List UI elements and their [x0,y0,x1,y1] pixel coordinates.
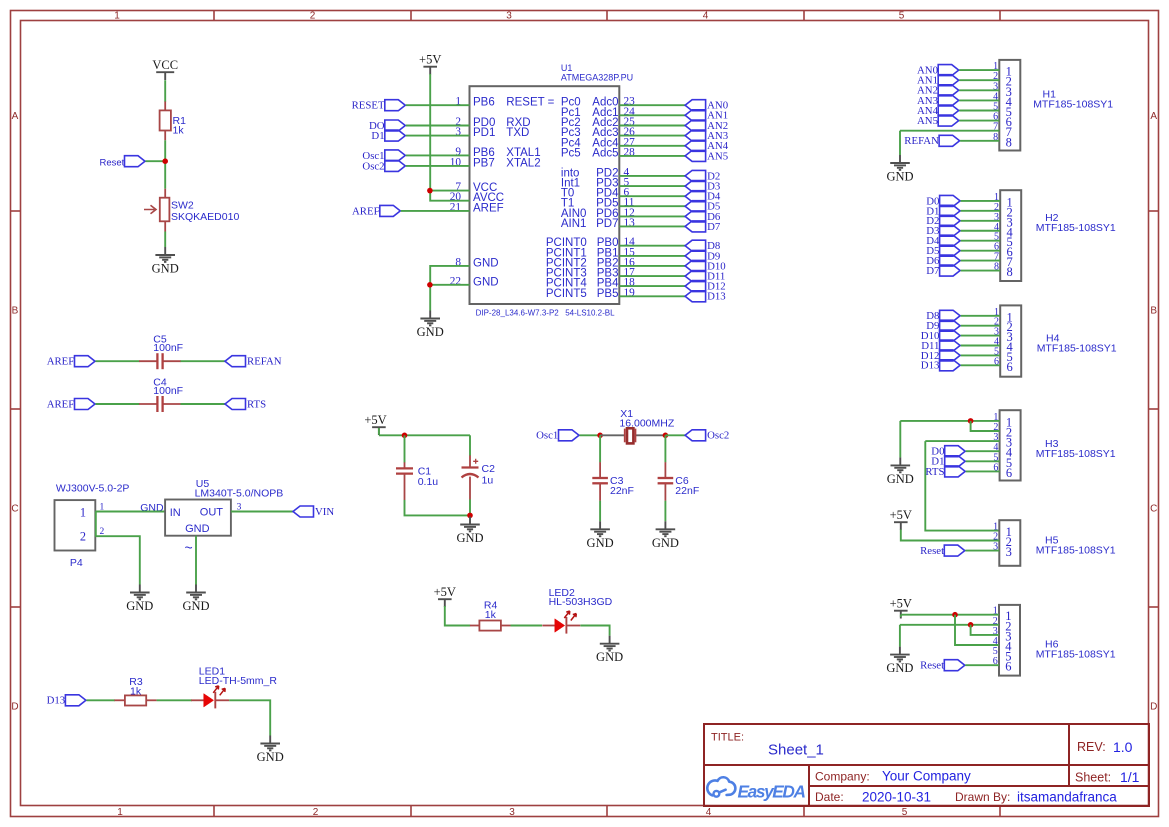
svg-text:Drawn By:: Drawn By: [955,790,1010,804]
net flag D6 (U1) [685,211,721,223]
svg-text:1/1: 1/1 [1120,769,1140,785]
U1 right pin labels Pc/Adc group [561,96,635,160]
svg-text:MTF185-108SY1: MTF185-108SY1 [1037,342,1117,354]
svg-text:D: D [1150,702,1157,713]
svg-text:Company:: Company: [815,770,870,784]
svg-text:AREF: AREF [47,398,75,410]
wire Osc2 to U1.10 [406,165,470,167]
svg-text:MTF185-108SY1: MTF185-108SY1 [1033,98,1113,110]
ground GND below C2 [456,517,483,546]
svg-text:D1: D1 [371,130,384,142]
svg-text:AREF: AREF [352,205,380,217]
wire D10 to H4.3 [961,335,1001,337]
wire D5 to H2.6 [961,250,1001,252]
wire LED1 to GND [229,700,270,735]
net flag RTS (C4) [225,398,266,410]
net flag D1 (U1 pin3) [371,130,405,142]
LED LED1 LED-TH-5mm_R [191,666,277,709]
svg-text:C: C [11,504,18,515]
svg-text:WJ300V-5.0-2P: WJ300V-5.0-2P [56,483,130,495]
power symbol +5V (H5) [890,508,912,530]
wire H3.1 to H3.2 [971,421,1000,431]
wire +5V to H5.2 [901,530,1000,541]
wire D8 to H4.1 [961,315,1001,317]
wire P4.2 to GND [95,536,140,584]
svg-text:IN: IN [170,507,181,519]
svg-text:VIN: VIN [315,506,334,518]
svg-text:PD1: PD1 [473,127,495,139]
svg-text:AREF: AREF [473,202,504,214]
svg-text:GND: GND [126,599,153,613]
svg-text:AIN1: AIN1 [561,218,587,230]
net flag D7 (H2) [926,265,960,277]
svg-text:D13: D13 [707,291,726,303]
wire AREF to C4 [96,403,140,405]
wire D1 to H2.2 [961,210,1001,212]
svg-text:4: 4 [706,807,712,818]
wire P4.1 to U5.IN [95,511,165,513]
svg-text:5: 5 [902,807,908,818]
net flag AN1 (U1) [685,110,728,122]
svg-text:GND: GND [456,531,483,545]
net flag D5 (H2) [926,245,960,257]
wire D12 to H4.5 [961,354,1001,356]
wire X1 to Osc2 [665,434,685,436]
connector H6 MTF185-108SY1 body [993,605,1116,676]
svg-text:MTF185-108SY1: MTF185-108SY1 [1036,448,1116,460]
net flag AN2 (H1) [917,85,959,97]
svg-text:D: D [11,702,18,713]
wire U1 to D8 [619,245,685,247]
net flag D7 (U1) [685,221,721,233]
svg-text:itsamandafranca: itsamandafranca [1017,790,1117,805]
connector H4 MTF185-108SY1 body [994,305,1117,376]
svg-text:AN5: AN5 [707,150,728,162]
wire H6.2 down to GND [899,625,901,647]
svg-text:RESET: RESET [352,100,385,112]
net flag Osc2 (crystal) [685,430,729,442]
junction H6 pin2/pin3 [968,622,974,628]
svg-text:GND: GND [182,599,209,613]
wire AN5 to H1.6 [959,120,999,122]
svg-text:OUT: OUT [200,507,224,519]
wire H3.3 down to H5.1 [925,441,999,530]
wire U1 to D4 [619,195,685,197]
svg-text:Reset: Reset [99,157,124,168]
ground GND below U1 [417,311,444,340]
svg-text:RESET =: RESET = [506,97,554,109]
svg-text:HL-503H3GD: HL-503H3GD [549,596,613,608]
svg-text:GND: GND [417,325,444,339]
junction C2 bottom GND node [467,513,473,519]
svg-text:5: 5 [899,11,905,22]
svg-text:LM340T-5.0/NOPB: LM340T-5.0/NOPB [195,487,284,499]
ground GND below H1 [886,155,913,184]
net flag D1 (H3) [931,456,965,468]
net flag RESET (U1 pin1) [352,100,406,112]
ground GND below H3 [887,457,914,486]
wire C6 to GND [664,501,666,522]
svg-text:3: 3 [506,11,512,22]
net flag D12 (U1) [685,281,726,293]
wire U1 to AN0 [619,104,685,106]
svg-text:PCINT5: PCINT5 [546,288,587,300]
net flag D8 (H4) [926,310,960,322]
net flag D11 (H4) [921,340,960,352]
connector H2 MTF185-108SY1 body [994,190,1116,281]
net flag REFAN (H1) [904,135,959,147]
net flag AN3 (U1) [685,130,728,142]
wire D2 to H2.3 [961,220,1001,222]
wire Reset to H5.3 [965,550,999,552]
net flag AN4 (H1) [917,105,959,117]
svg-text:3: 3 [1006,545,1012,559]
wire D0 to H3.4 [966,450,1000,452]
svg-text:TXD: TXD [506,127,529,139]
svg-text:GND: GND [887,472,914,486]
net flag Reset (H5) [920,545,965,557]
capacitor C2 1u (electrolytic) [462,435,496,499]
svg-text:2: 2 [80,530,86,544]
svg-text:D7: D7 [926,265,940,277]
svg-text:2020-10-31: 2020-10-31 [862,790,931,805]
svg-text:EasyEDA: EasyEDA [738,781,807,801]
wire Reset flag stub [146,160,166,162]
wire Reset to H6.6 [965,664,999,666]
net flag AREF (U1 pin21) [352,205,400,217]
svg-text:6: 6 [1006,466,1012,480]
wire +5V to U1.20 [430,74,469,201]
svg-text:+5V: +5V [890,597,912,611]
svg-text:1k: 1k [173,125,185,137]
wire U5.GND to GND [195,536,197,585]
power symbol VCC (top left) [152,58,178,80]
net flag D1 (H2) [926,205,960,217]
resistor R1 [160,102,186,141]
resistor R3 [114,676,156,706]
wire RESET to U1.1 [406,104,470,106]
svg-text:1: 1 [80,505,86,519]
wire AREF to U1.21 [401,210,470,212]
wire D13 to H4.6 [961,364,1001,366]
wire U1.22 to GND [429,285,431,311]
wire U1 to D2 [619,175,685,177]
svg-text:ATMEGA328P.PU: ATMEGA328P.PU [561,73,633,83]
svg-text:~: ~ [185,540,193,556]
svg-text:MTF185-108SY1: MTF185-108SY1 [1036,544,1116,556]
svg-text:REV:: REV: [1077,740,1106,754]
svg-text:D13: D13 [921,360,940,372]
wire D11 to H4.4 [961,345,1001,347]
svg-text:+5V: +5V [419,53,441,67]
net flag D13 [47,695,86,707]
wire D1 to U1.3 [406,135,470,137]
capacitor C4 100nF [139,376,183,412]
net flag VIN [293,506,334,518]
wire U1.8 to U1.22 [430,266,469,285]
power symbol +5V (R4 LED2) [434,585,456,607]
net flag Osc2 (U1 pin10) [362,160,405,172]
net flag D9 (H4) [926,320,960,332]
wire U1 to AN2 [619,125,685,127]
svg-text:GND: GND [152,262,179,276]
wire +5V top rail C1 C2 [379,434,470,436]
svg-text:A: A [1150,111,1157,122]
net flag D12 (H4) [921,350,960,362]
wire +5V stem [378,428,380,435]
wire U1 to AN5 [619,155,685,157]
svg-text:A: A [12,111,19,122]
svg-text:C2: C2 [482,463,496,475]
svg-text:PB7: PB7 [473,157,495,169]
svg-text:6: 6 [1007,360,1013,374]
net flag AN0 (H1) [917,65,959,77]
svg-text:D13: D13 [47,695,66,707]
wire R3 to LED1 [157,699,192,701]
net flag AN3 (H1) [917,95,959,107]
svg-text:DIP-28_L34.6-W7.3-P2: DIP-28_L34.6-W7.3-P2 [476,309,560,318]
power symbol +5V (C1 C2) [364,413,386,435]
wire C2 to bottom rail [469,499,471,515]
net flag RTS (H3) [925,466,965,478]
wire D1 to H3.5 [966,460,1000,462]
capacitor C6 22nF [658,462,700,501]
svg-text:Adc5: Adc5 [592,147,618,159]
wire SW2 to GND [164,232,166,248]
net flag D10 (H4) [921,330,960,342]
wire U1 to D3 [619,185,685,187]
net flag REFAN (C5) [225,356,282,368]
U1 left pin numbers and names [450,96,504,289]
svg-text:B: B [1150,306,1157,317]
wire P4.1 to P4.2 (edge) [95,512,97,537]
net flag AN4 (U1) [685,140,729,152]
svg-text:Osc2: Osc2 [707,430,729,442]
junction H6 pin1/pin4 [952,612,958,618]
LED LED2 HL-503H3GD [542,587,612,633]
wire VCC to R1 [164,80,166,102]
svg-text:+5V: +5V [364,413,386,427]
junction Reset node [162,158,168,164]
svg-text:Date:: Date: [815,790,844,804]
svg-text:PD7: PD7 [596,218,618,230]
svg-text:Osc1: Osc1 [536,430,558,442]
svg-text:Pc5: Pc5 [561,147,581,159]
svg-text:1k: 1k [130,686,142,698]
svg-text:GND: GND [473,276,499,288]
wire H3.1 down to GND [899,421,901,458]
svg-text:MTF185-108SY1: MTF185-108SY1 [1036,222,1116,234]
svg-text:Reset: Reset [920,660,944,672]
net flag DO (U1 pin2) [369,120,405,132]
svg-text:GND: GND [473,257,499,269]
wire U1 to D11 [619,275,685,277]
ground GND below C6 [652,521,679,550]
wire H1.7 down to GND [899,131,901,155]
svg-text:GND: GND [185,523,210,535]
svg-text:TITLE:: TITLE: [711,732,744,744]
net flag AREF (C4) [47,398,95,410]
svg-text:GND: GND [886,661,913,675]
svg-text:1u: 1u [482,475,494,487]
net flag D4 (H2) [926,235,960,247]
ground GND below U5 [182,585,209,614]
wire D7 to H2.8 [961,270,1001,272]
wire R1 to SW2 [164,140,166,188]
ground GND below H6 [886,647,913,676]
svg-text:8: 8 [1007,265,1013,279]
wire +5V to H6.1 [901,614,999,616]
svg-text:54-LS10.2-BL: 54-LS10.2-BL [565,309,615,318]
wire C3 to GND [599,501,601,522]
wire LED2 to GND [580,626,609,636]
wire U1 to AN1 [619,114,685,116]
svg-text:GND: GND [652,536,679,550]
wire +5V to C1 [404,435,406,462]
net flag Reset (H6) [920,660,965,672]
net flag AN2 (U1) [685,120,728,132]
svg-text:Your Company: Your Company [882,769,971,784]
wire H3.3 left [925,440,999,442]
net flag Osc1 (U1 pin9) [362,150,405,162]
wire U1 to D7 [619,225,685,227]
wire REFAN to H1.8 [960,140,999,142]
wire +5V stem H6 [900,615,902,617]
svg-text:1.0: 1.0 [1113,739,1133,755]
wire AREF to C5 [96,360,140,362]
wire H6.2 to H6.3 [971,625,999,635]
wire C1 to bottom rail [405,500,471,516]
svg-text:2: 2 [310,11,316,22]
ground GND below LED1 [257,736,284,765]
power symbol +5V (U1) [419,53,441,75]
svg-text:SW2: SW2 [171,200,194,212]
EasyEDA logo [707,777,806,801]
svg-text:AREF: AREF [47,356,75,368]
svg-text:RTS: RTS [925,466,944,478]
wire D13 to R3 [86,699,115,701]
net flag D8 (U1) [685,240,720,252]
svg-text:2: 2 [313,807,319,818]
svg-text:RTS: RTS [247,398,266,410]
junction X1 right / C6 [663,433,669,439]
net flag D9 (U1) [685,250,720,262]
svg-text:22nF: 22nF [610,485,634,497]
ground GND below LED2 [596,636,623,665]
svg-text:REFAN: REFAN [904,135,939,147]
wire +5V to R4 [445,606,471,626]
ground GND below P4 [126,585,153,614]
net flag Reset (SW2 node) [99,156,145,169]
svg-text:AN5: AN5 [917,115,938,127]
svg-text:GND: GND [257,750,284,764]
svg-text:XTAL2: XTAL2 [506,157,540,169]
wire D4 to H2.5 [961,240,1001,242]
svg-text:100nF: 100nF [153,342,183,354]
crystal X1 16.000MHZ [600,408,675,443]
wire Osc1 to X1 [580,434,601,436]
wire U1 to AN4 [619,145,685,147]
svg-text:D7: D7 [707,221,721,233]
net flag D0 (H3) [931,446,965,458]
svg-text:6: 6 [1005,660,1011,674]
net flag D0 (H2) [926,195,960,207]
svg-text:SKQKAED010: SKQKAED010 [171,211,239,223]
junction C1 top [402,433,408,439]
wire D3 to H2.4 [961,230,1001,232]
connector H5 MTF185-108SY1 body [993,520,1116,566]
svg-text:0.1u: 0.1u [418,476,439,488]
wire AN2 to H1.3 [959,89,999,91]
wire C4 to RTS [181,403,226,405]
net flag AN5 (U1) [685,150,728,162]
net flag AREF (C5) [47,356,95,368]
U1 inner function labels row1 [506,97,580,170]
U1 right pin labels PD group [561,166,635,230]
svg-text:Osc2: Osc2 [362,160,384,172]
capacitor C5 100nF [139,334,183,370]
net flag D2 (H2) [926,215,960,227]
junction X1 left / C3 [597,433,603,439]
svg-text:B: B [12,306,19,317]
power symbol +5V (H6) [890,597,912,619]
net flag D13 (U1) [685,291,726,303]
wire H1.7 left [900,130,999,132]
svg-text:LED-TH-5mm_R: LED-TH-5mm_R [199,675,278,687]
wire U1 to D9 [619,255,685,257]
wire H6.2 left [900,624,999,626]
connector H3 MTF185-108SY1 body [993,410,1115,480]
ground GND below C3 [587,521,614,550]
svg-text:16.000MHZ: 16.000MHZ [619,417,674,429]
svg-text:GND: GND [587,536,614,550]
net flag D6 (H2) [926,255,960,267]
svg-text:+5V: +5V [890,508,912,522]
svg-text:VCC: VCC [152,58,178,72]
svg-text:22nF: 22nF [675,485,699,497]
wire D0 to H2.1 [961,200,1001,202]
net flag Osc1 (crystal) [536,430,579,442]
svg-text:8: 8 [1006,135,1012,149]
svg-text:Sheet:: Sheet: [1075,771,1111,785]
net flag D2 (U1) [685,170,720,182]
wire Osc1 to U1.9 [406,154,470,156]
wire RTS to H3.6 [966,470,1000,472]
svg-text:Sheet_1: Sheet_1 [768,742,824,759]
net flag D3 (U1) [685,181,720,193]
net flag AN0 (U1) [685,100,728,112]
svg-text:+5V: +5V [434,585,456,599]
junction U1 GND node [427,282,433,288]
net flag AN5 (H1) [917,115,959,127]
U1 right pin labels PB group [546,236,635,300]
svg-text:GND: GND [596,650,623,664]
wire AN3 to H1.4 [959,99,999,101]
wire U5.OUT to VIN [231,511,293,513]
wire +5V to U1.7 [430,190,469,192]
wire U1 to D5 [619,205,685,207]
svg-text:1k: 1k [485,609,497,621]
svg-text:PB6: PB6 [473,97,495,109]
wire X1 to C6 [664,435,666,462]
switch SW2 [144,189,239,232]
net flag D10 (U1) [685,260,726,272]
ground GND below SW2 [152,247,179,276]
svg-text:PB5: PB5 [597,288,619,300]
capacitor C1 0.1u [396,435,438,500]
wire AN1 to H1.2 [959,79,999,81]
junction U1 VCC node [427,188,433,194]
